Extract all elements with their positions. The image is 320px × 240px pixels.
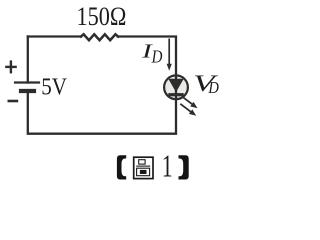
- svg-text:D: D: [208, 78, 219, 97]
- svg-text:D: D: [151, 46, 163, 66]
- svg-text:5V: 5V: [41, 74, 67, 101]
- svg-text:150Ω: 150Ω: [77, 2, 127, 31]
- svg-text:1: 1: [162, 148, 173, 184]
